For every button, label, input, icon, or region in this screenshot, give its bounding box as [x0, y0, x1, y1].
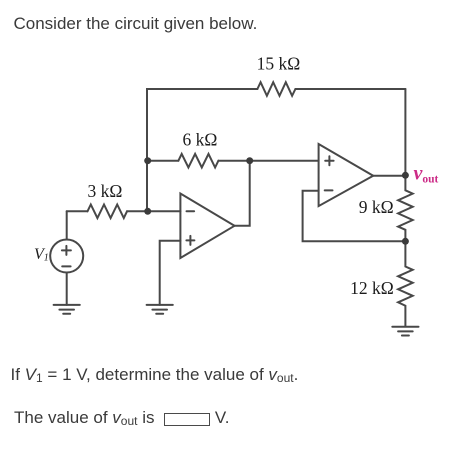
resistor R 3k zigzag: [88, 205, 127, 219]
svg-text:9 kΩ: 9 kΩ: [359, 197, 394, 217]
svg-text:6 kΩ: 6 kΩ: [183, 130, 218, 150]
svg-text:V1: V1: [34, 246, 49, 264]
source V1 wires: [66, 211, 68, 305]
wire 6k row: [148, 160, 319, 162]
wire U1 plus input to ground: [160, 241, 181, 305]
op-amp U1 triangle: [180, 194, 234, 259]
resistor R 6k zigzag: [178, 154, 218, 168]
node dot D: [402, 238, 409, 245]
wire top feedback left corner + left vertical: [147, 89, 405, 211]
ground under V1: [54, 305, 80, 314]
source V1 circle: [50, 240, 83, 273]
op-amp U1 minus sign: [187, 210, 195, 212]
node dot B: [144, 208, 151, 215]
resistor R 15k zigzag: [257, 82, 295, 96]
svg-text:12 kΩ: 12 kΩ: [350, 278, 394, 298]
question text: [11, 365, 299, 385]
ground at bottom right: [392, 327, 418, 336]
resistor R 12k vertical: [398, 241, 413, 326]
op-amp U2 triangle: [319, 144, 374, 206]
wire 3k row: [67, 210, 181, 212]
ground at U1 plus: [147, 305, 173, 314]
title text: [14, 14, 258, 34]
wire U1 output up to 6k node: [235, 161, 250, 226]
answer text with input box: [14, 408, 229, 428]
node dot C: [246, 157, 253, 164]
wire right vertical from top feedback: [404, 89, 406, 175]
wire U2 minus feedback loop: [303, 191, 406, 242]
source V1 plus minus: [62, 246, 71, 267]
op-amp U2 minus sign: [325, 189, 333, 191]
svg-text:3 kΩ: 3 kΩ: [87, 181, 122, 201]
wire U2 output to out node: [373, 175, 405, 177]
node dot vout: [402, 172, 409, 179]
resistor R 9k vertical: [398, 175, 413, 241]
op-amp U1 plus sign: [186, 236, 194, 245]
op-amp U2 plus sign: [325, 156, 333, 165]
svg-text:15 kΩ: 15 kΩ: [257, 54, 301, 74]
svg-text:vout: vout: [414, 163, 439, 186]
node dot A: [144, 157, 151, 164]
